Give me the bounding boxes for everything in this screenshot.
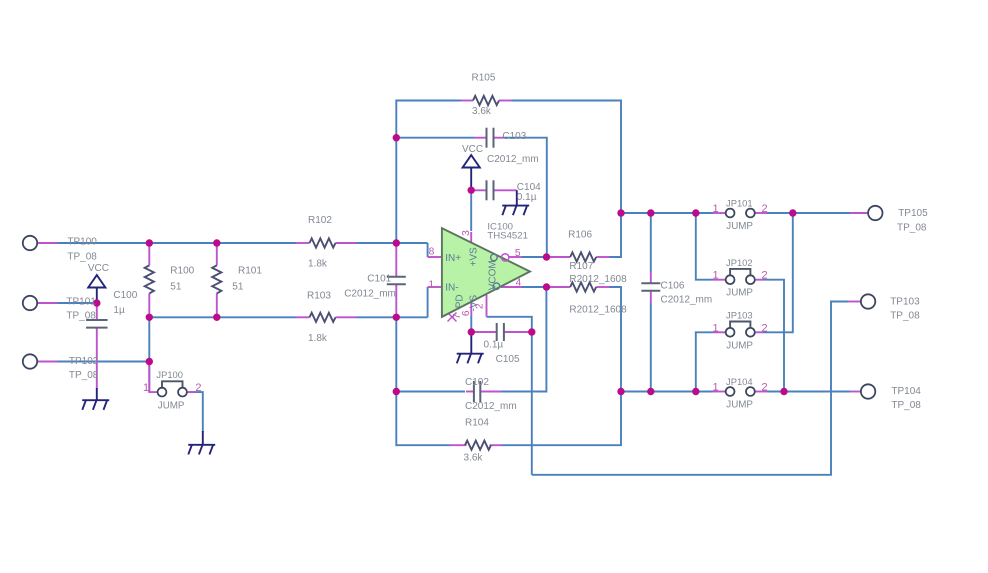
svg-text:TP103: TP103 <box>890 297 920 308</box>
pin lead JP102 pin1 <box>713 279 725 281</box>
svg-text:TP_08: TP_08 <box>891 400 921 411</box>
svg-text:8: 8 <box>429 247 435 258</box>
svg-text:TP104: TP104 <box>891 386 921 397</box>
svg-text:-VS: -VS <box>468 295 479 312</box>
svg-text:51: 51 <box>170 282 182 293</box>
capacitor C102 <box>473 381 475 402</box>
svg-text:1.8k: 1.8k <box>308 333 328 344</box>
pin lead TP105 <box>850 212 868 214</box>
svg-text:51: 51 <box>232 282 244 293</box>
capacitor C103 <box>486 128 488 148</box>
pin lead R106 left <box>549 256 570 258</box>
wire C103 left segment <box>396 137 474 139</box>
test point TP105 <box>868 206 882 220</box>
svg-text:1.8k: 1.8k <box>308 259 328 270</box>
capacitor C101 <box>387 276 406 278</box>
pin lead R103 left <box>296 316 310 318</box>
svg-text:3.6k: 3.6k <box>472 106 492 117</box>
pin lead JP100 pin2 <box>187 391 195 393</box>
junction (546.5,287) <box>543 283 550 290</box>
test point TP100 <box>23 236 37 250</box>
junction (396.3,243) <box>393 239 400 246</box>
pin lead JP101 pin2 <box>755 212 767 214</box>
op-amp IC100 THS4521 <box>442 228 530 317</box>
svg-text:C2012_mm: C2012_mm <box>487 154 539 165</box>
pin lead R103 right <box>336 316 357 318</box>
svg-text:C103: C103 <box>502 131 526 142</box>
junction (396.3,391.5) <box>393 388 400 395</box>
svg-text:JP100: JP100 <box>156 369 183 380</box>
capacitor C105 <box>496 323 498 341</box>
pin lead JP103 pin1 <box>713 331 725 333</box>
junction (96.8,303) <box>93 299 100 306</box>
svg-text:C102: C102 <box>465 377 489 388</box>
pin lead JP101 pin1 <box>713 212 725 214</box>
op-amp pin 5 lead <box>509 256 522 258</box>
svg-text:TP_08: TP_08 <box>69 370 99 381</box>
svg-text:TP100: TP100 <box>67 236 97 247</box>
wire JP102 pin2 down to OUT- row <box>763 280 784 392</box>
pin lead C104 left <box>471 189 486 191</box>
op-amp pin 4 lead <box>501 286 522 288</box>
resistor R103 <box>310 313 336 322</box>
svg-text:+VS: +VS <box>468 247 479 267</box>
wire TP100 row <box>58 242 297 244</box>
wire R104 row right <box>502 392 622 446</box>
wire VCOM route <box>487 317 532 332</box>
test point TP102 <box>23 354 37 368</box>
wire C102 row left <box>396 391 465 393</box>
wire VCC to pin3 <box>470 190 472 231</box>
svg-text:R104: R104 <box>465 418 489 429</box>
junction (621,213) <box>617 209 624 216</box>
svg-text:JP102: JP102 <box>726 257 753 268</box>
svg-text:JUMP: JUMP <box>158 400 185 411</box>
wire pin6 to ground node <box>470 315 472 332</box>
wire C103 right segment <box>503 138 547 257</box>
pin lead C101 top <box>395 243 397 277</box>
junction (149.3,243) <box>146 239 153 246</box>
svg-text:2: 2 <box>762 270 768 282</box>
svg-text:JUMP: JUMP <box>726 400 753 411</box>
wire OUT+ down to JP102 pin1 <box>696 213 713 280</box>
pin lead R104 right <box>490 444 502 446</box>
pin lead C103 right <box>494 137 504 139</box>
wire JP104 pin2 to TP104 <box>767 391 850 393</box>
svg-text:VCOM: VCOM <box>488 260 499 290</box>
pin lead R106 right <box>596 256 609 258</box>
pin lead R107 right <box>596 286 609 288</box>
svg-text:3: 3 <box>461 230 472 236</box>
wire JP101 pin2 to TP105 <box>767 212 850 214</box>
wire TP100 row to pin8 jog <box>356 242 428 244</box>
op-amp output marker pin5 inner O <box>491 254 498 261</box>
wire bottom route to TP103 <box>532 302 848 475</box>
svg-text:TP101: TP101 <box>66 296 96 307</box>
svg-text:R106: R106 <box>568 230 592 241</box>
wire pin1 jog vertical <box>427 287 429 317</box>
wire C106 bottom lead <box>650 303 652 392</box>
junction (695.8,213) <box>692 209 699 216</box>
VCC symbol at C100 <box>88 275 105 287</box>
resistor R106 <box>570 252 596 261</box>
jumper JP100 <box>162 381 183 387</box>
wire TP102 row <box>58 361 150 363</box>
pin lead C104 right <box>494 189 517 191</box>
svg-text:2: 2 <box>762 203 768 215</box>
junction (471.3,332) <box>468 328 475 335</box>
svg-text:7: 7 <box>452 313 463 319</box>
wire R107 down to OUT- node <box>609 287 621 392</box>
svg-text:2: 2 <box>762 322 768 334</box>
ground at op-amp -VS <box>470 332 472 354</box>
pin lead R100 top <box>148 243 150 266</box>
pin lead R101 top <box>216 243 218 266</box>
svg-text:4: 4 <box>516 278 522 289</box>
wire R100 column lower <box>148 317 150 392</box>
wire IN- row to pin1 jog <box>356 316 428 318</box>
svg-text:2: 2 <box>762 382 768 394</box>
pin lead C100 bottom to ground <box>96 328 98 390</box>
pin lead R105 left <box>461 100 473 102</box>
VCC stem at op-amp <box>470 168 472 190</box>
wire OUT- row <box>621 391 713 393</box>
svg-text:R103: R103 <box>307 291 331 302</box>
svg-text:R105: R105 <box>472 73 496 84</box>
pin lead R105 right <box>499 100 512 102</box>
ground at C104 <box>516 190 518 205</box>
op-amp pin 8 lead <box>428 256 442 258</box>
wire R106 to OUT+ node <box>609 213 621 257</box>
ground under JP100 <box>202 431 204 445</box>
no-connect X on pin 7 <box>448 313 457 322</box>
svg-text:JP101: JP101 <box>726 198 753 209</box>
pin lead C102 left <box>466 391 474 393</box>
jumper JP102 <box>730 269 750 275</box>
pin lead TP104 <box>850 391 861 393</box>
svg-text:1: 1 <box>428 279 434 290</box>
pin lead JP102 pin2 <box>755 279 763 281</box>
svg-text:R102: R102 <box>308 215 332 226</box>
resistor R100 <box>145 265 154 293</box>
svg-text:1: 1 <box>713 322 719 334</box>
pin lead JP100 pin1 <box>149 362 157 393</box>
svg-text:1: 1 <box>143 382 149 394</box>
test point TP103 <box>861 294 875 308</box>
pin lead C105 right <box>504 331 532 333</box>
pin lead R102 right <box>336 242 357 244</box>
pin lead C106 top <box>650 272 652 284</box>
VCC stem at C100 <box>96 288 98 302</box>
svg-text:JP104: JP104 <box>726 376 753 387</box>
svg-text:IN-: IN- <box>445 283 458 294</box>
resistor R101 <box>212 265 221 293</box>
junction (531.8,332) <box>528 328 535 335</box>
wire IN- node down to C102 row and R104 row <box>396 317 450 445</box>
capacitor C104 <box>486 180 488 200</box>
svg-text:TP102: TP102 <box>69 356 99 367</box>
pin lead TP103 <box>848 301 861 303</box>
svg-text:TP105: TP105 <box>898 208 928 219</box>
svg-text:TP_08: TP_08 <box>890 311 920 322</box>
svg-text:TP_08: TP_08 <box>67 251 97 262</box>
capacitor C106 <box>641 282 660 284</box>
junction (216.8,243) <box>213 239 220 246</box>
pin lead C101 bottom <box>395 284 397 317</box>
svg-text:TP_08: TP_08 <box>897 223 927 234</box>
pin lead R104 left <box>450 444 467 446</box>
junction (149.3,361.5) <box>146 358 153 365</box>
resistor R102 <box>310 238 336 247</box>
svg-text:R2012_1608: R2012_1608 <box>569 274 627 285</box>
wire pin5 to R106 <box>522 256 544 258</box>
test point TP101 <box>23 296 37 310</box>
junction (650.8,213) <box>647 209 654 216</box>
pin lead C106 bottom <box>650 291 652 303</box>
pin lead R107 left <box>549 286 570 288</box>
pin lead C105 left <box>471 331 496 333</box>
pin lead JP104 pin2 <box>755 391 767 393</box>
svg-text:JP103: JP103 <box>726 310 753 321</box>
svg-text:THS4521: THS4521 <box>487 231 528 242</box>
svg-text:2: 2 <box>195 382 201 394</box>
jumper JP101 <box>726 209 735 218</box>
svg-text:C106: C106 <box>661 281 685 292</box>
pin lead R101 bottom <box>216 293 218 317</box>
junction (396.3,137.7) <box>393 134 400 141</box>
junction (784,391.5) <box>780 388 787 395</box>
pin lead TP102 <box>37 361 57 363</box>
svg-text:JUMP: JUMP <box>726 221 753 232</box>
wire JP103 pin2 up to TP105 node <box>763 213 793 332</box>
svg-text:3.6k: 3.6k <box>464 453 484 464</box>
junction (792.8,213) <box>789 209 796 216</box>
ground under C100 <box>96 388 98 400</box>
pin lead C100 top <box>96 303 98 320</box>
svg-text:IN+: IN+ <box>445 253 461 264</box>
svg-text:R2012_1608: R2012_1608 <box>569 305 627 316</box>
svg-text:1: 1 <box>713 203 719 215</box>
svg-text:1: 1 <box>713 270 719 282</box>
op-amp output marker pin4 inner O <box>493 283 500 290</box>
wire pin4 to R107 <box>522 286 544 288</box>
resistor R105 <box>473 96 499 105</box>
pin lead C102 right <box>480 391 501 393</box>
junction (471.2,190.3) <box>468 187 475 194</box>
wire JP100 pin2 to ground <box>189 392 203 432</box>
op-amp pin 3 lead <box>470 232 472 243</box>
wire IN- row left <box>149 316 296 318</box>
junction (695.8,391.5) <box>692 388 699 395</box>
svg-text:0.1µ: 0.1µ <box>517 192 537 203</box>
svg-text:R101: R101 <box>238 266 262 277</box>
wire JP103 pin1 down to OUT- row <box>696 332 713 391</box>
test point TP104 <box>861 384 875 398</box>
svg-text:R100: R100 <box>170 266 194 277</box>
wire TP101 to C100 node <box>58 302 97 304</box>
op-amp output marker pin5 <box>502 254 509 261</box>
svg-text:JUMP: JUMP <box>726 288 753 299</box>
op-amp pin 2 lead <box>486 295 488 317</box>
svg-text:5: 5 <box>515 248 521 259</box>
svg-text:TP_08: TP_08 <box>66 310 96 321</box>
pin lead C103 left <box>475 137 487 139</box>
svg-text:C2012_mm: C2012_mm <box>344 289 396 300</box>
pin lead JP104 pin1 <box>713 391 725 393</box>
pin lead TP101 <box>37 302 57 304</box>
svg-text:1: 1 <box>713 382 719 394</box>
junction (650.8,391.5) <box>647 388 654 395</box>
junction (621,391.5) <box>617 388 624 395</box>
pin lead JP103 pin2 <box>755 331 763 333</box>
svg-text:VCC: VCC <box>462 144 483 155</box>
junction (216.8,317.3) <box>213 314 220 321</box>
svg-text:1µ: 1µ <box>113 305 125 316</box>
wire C105 node down to bottom route <box>531 332 533 475</box>
svg-text:PD: PD <box>454 294 465 308</box>
svg-text:VCC: VCC <box>88 263 109 274</box>
svg-text:R107: R107 <box>569 261 593 272</box>
wire R105 left segment <box>396 101 461 244</box>
op-amp pin 6 lead <box>470 302 472 315</box>
svg-text:C105: C105 <box>496 354 520 365</box>
svg-text:C2012_mm: C2012_mm <box>465 401 517 412</box>
pin lead TP100 <box>37 242 57 244</box>
capacitor C100 <box>86 319 108 321</box>
svg-text:C101: C101 <box>367 274 391 285</box>
wire pin8 jog vertical <box>427 243 429 257</box>
jumper JP103 <box>730 322 750 328</box>
wire OUT+ row <box>621 212 713 214</box>
pin lead R102 left <box>296 242 310 244</box>
junction (546.5,257) <box>543 253 550 260</box>
jumper JP104 <box>726 387 735 396</box>
junction (396.3,317.3) <box>393 314 400 321</box>
resistor R104 <box>465 441 491 450</box>
pin lead R100 bottom <box>148 293 150 317</box>
resistor R107 <box>570 282 596 291</box>
svg-text:JUMP: JUMP <box>726 340 753 351</box>
wire C106 top lead <box>650 213 652 272</box>
VCC symbol at op-amp <box>463 155 480 167</box>
svg-text:C100: C100 <box>113 290 137 301</box>
op-amp pin 1 lead <box>428 286 442 288</box>
wire R105 right segment <box>512 101 622 214</box>
junction (149.3,317.3) <box>146 314 153 321</box>
svg-text:0.1µ: 0.1µ <box>484 340 504 351</box>
wire C102 row right up to pin4 <box>501 287 546 392</box>
svg-text:C2012_mm: C2012_mm <box>661 295 713 306</box>
